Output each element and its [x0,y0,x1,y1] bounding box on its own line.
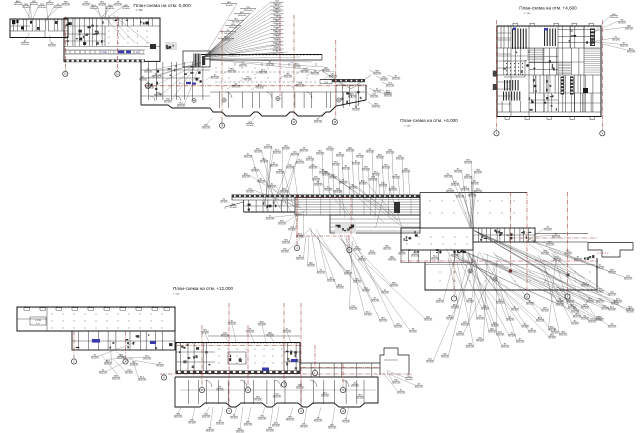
svg-text:1200 м3/ч: 1200 м3/ч [353,281,362,283]
plan D red grid x=74 [73,331,75,358]
plan D bubble (315,373) [312,370,317,375]
plan C left tip diagonal [225,202,244,207]
plan D lower band partitions [188,380,190,404]
svg-text:850 м3/ч: 850 м3/ч [581,307,589,309]
plan C lower area boundary [425,263,597,291]
plan B red grid line right [601,20,603,129]
svg-text:850 м3/ч: 850 м3/ч [258,324,266,326]
svg-text:760 м3/ч: 760 м3/ч [446,318,454,320]
svg-text:П2 В4: П2 В4 [101,52,108,54]
svg-text:1200 м3/ч: 1200 м3/ч [559,334,568,336]
svg-text:760 м3/ч: 760 м3/ч [466,301,474,303]
plan D red axis y=345 [177,345,300,347]
plan D main body mid rooms [228,352,246,364]
svg-text:1200 м3/ч: 1200 м3/ч [394,326,403,328]
svg-text:1250 м3/ч: 1250 м3/ч [246,331,255,333]
svg-text:4000 м3/ч: 4000 м3/ч [382,167,391,169]
svg-text:3200 м3/ч: 3200 м3/ч [99,372,108,374]
plan C bowtie diagonal bundle [474,231,560,283]
svg-text:4000 м3/ч: 4000 м3/ч [451,184,460,186]
svg-text:1250 м3/ч: 1250 м3/ч [349,308,358,310]
plan B grid bubble right [600,131,605,136]
svg-text:760 м3/ч: 760 м3/ч [329,177,337,179]
svg-text:760 м3/ч: 760 м3/ч [244,79,252,81]
svg-text:1200 м3/ч: 1200 м3/ч [300,150,309,152]
plan A fan left label stack [204,4,237,57]
svg-text:1250 м3/ч: 1250 м3/ч [314,184,323,186]
plan C bubble (567,296) [565,294,570,299]
svg-text:850 м3/ч: 850 м3/ч [446,191,454,193]
svg-text:1250 м3/ч: 1250 м3/ч [456,334,465,336]
svg-text:3200 м3/ч: 3200 м3/ч [259,72,268,74]
plan A labels right end [344,92,349,95]
plan B fan labels right [595,16,611,32]
svg-text:1200 м3/ч: 1200 м3/ч [546,244,555,246]
plan A right rooms [335,85,337,106]
svg-text:1250 м3/ч: 1250 м3/ч [388,259,397,261]
svg-text:3200 м3/ч: 3200 м3/ч [496,334,505,336]
plan C band extension to bracket [535,233,588,235]
svg-text:1250 м3/ч: 1250 м3/ч [144,71,153,73]
plan C lower area columns [439,271,442,274]
svg-text:2400 м3/ч: 2400 м3/ч [383,248,392,250]
svg-text:3200 м3/ч: 3200 м3/ч [296,162,305,164]
svg-text:3200 м3/ч: 3200 м3/ч [379,320,388,322]
svg-text:760 м3/ч: 760 м3/ч [326,149,334,151]
svg-text:760 м3/ч: 760 м3/ч [229,207,237,209]
plan A red grid line x=222 [221,30,223,122]
svg-text:850 м3/ч: 850 м3/ч [362,290,370,292]
svg-text:3200 м3/ч: 3200 м3/ч [501,346,510,348]
plan B mid-centre rooms [529,55,558,57]
svg-text:560 м3/ч: 560 м3/ч [352,109,360,111]
svg-text:3200 м3/ч: 3200 м3/ч [336,155,345,157]
plan C dense cell band [473,228,535,242]
svg-text:850 м3/ч: 850 м3/ч [48,45,56,47]
svg-text:2400 м3/ч: 2400 м3/ч [286,419,295,421]
svg-text:1250 м3/ч: 1250 м3/ч [316,153,325,155]
svg-text:1200 м3/ч: 1200 м3/ч [282,242,291,244]
plan C bottom-left label cloud [274,214,303,217]
svg-text:560 м3/ч: 560 м3/ч [307,265,315,267]
plan A red grid line x=335 [335,40,337,119]
plan A junction block outline [140,61,142,105]
svg-text:760 м3/ч: 760 м3/ч [384,93,392,95]
svg-text:560 м3/ч: 560 м3/ч [117,357,125,359]
svg-text:560 м3/ч: 560 м3/ч [474,172,482,174]
svg-text:1200 м3/ч: 1200 м3/ч [257,181,266,183]
svg-text:560 м3/ч: 560 м3/ч [246,191,254,193]
svg-text:850 м3/ч: 850 м3/ч [260,161,268,163]
svg-text:1250 м3/ч: 1250 м3/ч [588,321,597,323]
plan A block2 outline [64,18,160,61]
plan C central lower part [330,215,420,233]
plan B misc cells [549,60,551,62]
svg-text:850 м3/ч: 850 м3/ч [246,125,254,127]
plan A block2 equipment row [64,49,145,51]
svg-text:560 м3/ч: 560 м3/ч [251,170,259,172]
plan B comb upper-left [512,29,513,50]
svg-text:3200 м3/ч: 3200 м3/ч [411,255,420,257]
svg-text:1200 м3/ч: 1200 м3/ч [238,15,247,17]
svg-text:850 м3/ч: 850 м3/ч [164,101,172,103]
plan A junction cells [151,84,153,87]
svg-text:3200 м3/ч: 3200 м3/ч [384,95,393,97]
plan C red drop to bubble (297,248) [296,194,298,245]
svg-text:1250 м3/ч: 1250 м3/ч [392,78,401,80]
plan C extra upper labels [317,166,391,214]
plan B upper partitions [562,26,564,48]
plan C central duct band [295,198,420,216]
svg-text:760 м3/ч: 760 м3/ч [46,4,54,6]
svg-text:4000 м3/ч: 4000 м3/ч [309,167,318,169]
svg-text:4000 м3/ч: 4000 м3/ч [242,176,251,178]
plan A block3 bottom wall with bays [210,108,222,112]
plan B extra partitions [503,48,505,75]
plan C upper-left label cloud [252,155,267,210]
plan A labels below bays [206,118,212,125]
svg-text:1200 м3/ч: 1200 м3/ч [21,44,30,46]
plan D red grid x=284 [283,303,285,381]
svg-text:3200 м3/ч: 3200 м3/ч [244,10,253,12]
plan A grid bubble (294,122) [291,119,296,124]
svg-text:1200 м3/ч: 1200 м3/ч [258,418,267,420]
svg-text:1 : 500: 1 : 500 [135,10,143,12]
plan D bubble (164,377) [161,375,166,380]
plan C right columns grid [429,200,432,203]
svg-text:3200 м3/ч: 3200 м3/ч [273,396,282,398]
plan A block3 column dots [215,67,218,70]
svg-text:760 м3/ч: 760 м3/ч [230,417,238,419]
svg-text:850 м3/ч: 850 м3/ч [454,171,462,173]
plan C band below hall [401,250,473,263]
plan B blue tags [513,28,516,30]
plan C big hall [401,228,473,250]
plan A block2 partitions left part [67,18,69,46]
svg-text:1250 м3/ч: 1250 м3/ч [319,172,328,174]
svg-text:4000 м3/ч: 4000 м3/ч [211,77,220,79]
plan A right label cluster [369,70,374,72]
plan D main body roof line [208,335,300,337]
svg-text:1200 м3/ч: 1200 м3/ч [62,4,71,6]
svg-text:2400 м3/ч: 2400 м3/ч [229,27,238,29]
plan C left block partitions [248,200,250,212]
svg-text:4000 м3/ч: 4000 м3/ч [306,159,315,161]
svg-text:2400 м3/ч: 2400 м3/ч [586,301,595,303]
svg-text:2400 м3/ч: 2400 м3/ч [280,191,289,193]
plan A right dark band [320,79,365,82]
svg-text:4000 м3/ч: 4000 м3/ч [130,364,139,366]
plan A left wing outline [10,19,68,38]
svg-text:560 м3/ч: 560 м3/ч [380,79,388,81]
plan C bubble (527,296) [524,294,529,299]
plan A scattered labels mid [206,76,212,80]
svg-text:План-схема на отм. +4,600: План-схема на отм. +4,600 [519,6,577,11]
svg-text:2400 м3/ч: 2400 м3/ч [177,105,186,107]
plan C strip dark top band [232,195,420,198]
plan D red axis y=367 [302,367,380,369]
svg-text:1200 м3/ч: 1200 м3/ч [202,127,211,129]
svg-text:4000 м3/ч: 4000 м3/ч [222,39,231,41]
plan A block3 equipment circles [222,98,226,102]
plan C bubble (297,248) [294,245,299,250]
svg-text:850 м3/ч: 850 м3/ч [508,335,516,337]
plan D under-hall label cloud [99,342,137,356]
svg-text:560 м3/ч: 560 м3/ч [188,422,196,424]
svg-text:1200 м3/ч: 1200 м3/ч [581,285,590,287]
svg-text:4000 м3/ч: 4000 м3/ч [614,301,623,303]
svg-text:3200 м3/ч: 3200 м3/ч [339,182,348,184]
svg-text:1200 м3/ч: 1200 м3/ч [496,302,505,304]
svg-text:850 м3/ч: 850 м3/ч [596,291,604,293]
svg-text:560 м3/ч: 560 м3/ч [379,185,387,187]
svg-text:1250 м3/ч: 1250 м3/ч [397,392,406,394]
svg-text:1250 м3/ч: 1250 м3/ч [273,152,282,154]
svg-text:4000 м3/ч: 4000 м3/ч [30,4,39,6]
svg-text:План-схема на отм. +6,000: План-схема на отм. +6,000 [400,118,458,123]
svg-text:1200 м3/ч: 1200 м3/ч [352,163,361,165]
svg-text:850 м3/ч: 850 м3/ч [91,357,99,359]
plan B ramp ribs right [584,48,600,50]
svg-text:850 м3/ч: 850 м3/ч [281,251,289,253]
svg-text:1250 м3/ч: 1250 м3/ч [370,96,379,98]
svg-text:1250 м3/ч: 1250 м3/ч [396,158,405,160]
svg-text:560 м3/ч: 560 м3/ч [254,151,262,153]
svg-text:560 м3/ч: 560 м3/ч [405,379,413,381]
plan D main body outline [176,343,300,374]
svg-text:850 м3/ч: 850 м3/ч [268,186,276,188]
svg-text:850 м3/ч: 850 м3/ч [266,430,274,432]
svg-text:2400 м3/ч: 2400 м3/ч [611,303,620,305]
plan D hall left partitions [46,307,48,331]
svg-text:1250 м3/ч: 1250 м3/ч [114,4,123,6]
svg-text:1250 м3/ч: 1250 м3/ч [626,309,635,311]
svg-text:2400 м3/ч: 2400 м3/ч [392,382,401,384]
svg-text:1200 м3/ч: 1200 м3/ч [351,385,360,387]
svg-text:560 м3/ч: 560 м3/ч [152,76,160,78]
plan C red axis y=261 [400,260,598,262]
svg-text:850 м3/ч: 850 м3/ч [511,309,519,311]
plan D red grid x=315 [314,345,316,370]
plan A block2 top label cloud [90,3,105,19]
plan A block3 interior marks [234,63,236,66]
svg-text:4000 м3/ч: 4000 м3/ч [466,346,475,348]
plan C bubble (349,250) [347,247,352,252]
svg-text:1250 м3/ч: 1250 м3/ч [228,71,237,73]
svg-text:850 м3/ч: 850 м3/ч [362,169,370,171]
plan D red grid x=125 [125,331,127,358]
svg-text:1200 м3/ч: 1200 м3/ч [488,331,497,333]
svg-text:1250 м3/ч: 1250 м3/ч [596,267,605,269]
plan C lower crosshairs [468,269,472,273]
svg-text:3200 м3/ч: 3200 м3/ч [481,308,490,310]
svg-text:1200 м3/ч: 1200 м3/ч [321,395,330,397]
plan B mid band extra verticals [535,75,537,93]
svg-text:3200 м3/ч: 3200 м3/ч [372,106,381,108]
svg-text:760 м3/ч: 760 м3/ч [256,87,264,89]
svg-text:4000 м3/ч: 4000 м3/ч [536,320,545,322]
svg-text:760 м3/ч: 760 м3/ч [216,389,224,391]
svg-text:4000 м3/ч: 4000 м3/ч [386,85,395,87]
svg-text:2400 м3/ч: 2400 м3/ч [366,151,375,153]
plan B dark bar upper-right [590,29,595,47]
plan C bottom extra labels [474,254,489,330]
svg-text:3200 м3/ч: 3200 м3/ч [624,278,633,280]
svg-text:560 м3/ч: 560 м3/ч [548,337,556,339]
svg-text:2400 м3/ч: 2400 м3/ч [244,156,253,158]
svg-text:760 м3/ч: 760 м3/ч [225,5,233,7]
plan C left block outline [231,195,233,201]
svg-text:4000 м3/ч: 4000 м3/ч [386,152,395,154]
plan D red grid x=301 [300,303,302,407]
svg-text:4000 м3/ч: 4000 м3/ч [314,420,323,422]
plan C lower walkway line [425,264,595,266]
svg-text:3200 м3/ч: 3200 м3/ч [291,154,300,156]
svg-text:850 м3/ч: 850 м3/ч [409,331,417,333]
plan D red grid x=229 [228,303,230,407]
svg-text:850 м3/ч: 850 м3/ч [272,425,280,427]
plan D main body right rooms [283,343,285,374]
plan C right label cloud lower [525,228,544,242]
svg-text:План-схема на отм. +12,000: План-схема на отм. +12,000 [173,286,234,291]
svg-text:1200 м3/ч: 1200 м3/ч [444,176,453,178]
plan A red grid line x=117 [116,17,118,71]
plan D bubble (343,390) [340,387,345,392]
plan A block3 room row [210,91,365,93]
svg-text:1200 м3/ч: 1200 м3/ч [228,323,237,325]
svg-text:560 м3/ч: 560 м3/ч [98,4,106,6]
svg-text:4000 м3/ч: 4000 м3/ч [221,335,230,337]
svg-text:1250 м3/ч: 1250 м3/ч [38,7,47,9]
svg-text:2400 м3/ч: 2400 м3/ч [90,8,99,10]
svg-text:1200 м3/ч: 1200 м3/ч [476,318,485,320]
svg-text:760 м3/ч: 760 м3/ч [288,229,296,231]
plan A red grid line x=294 [293,15,295,119]
svg-text:760 м3/ч: 760 м3/ч [364,314,372,316]
svg-text:2400 м3/ч: 2400 м3/ч [474,191,483,193]
plan B comb upper-mid [544,29,545,47]
svg-text:1200 м3/ч: 1200 м3/ч [266,64,275,66]
plan D bubble (248,390) [245,387,250,392]
plan D bubble (74,361) [71,359,76,364]
svg-text:3200 м3/ч: 3200 м3/ч [344,273,353,275]
svg-text:4000 м3/ч: 4000 м3/ч [390,285,399,287]
svg-text:1200 м3/ч: 1200 м3/ч [468,195,477,197]
svg-text:1250 м3/ч: 1250 м3/ч [441,356,450,358]
svg-text:760 м3/ч: 760 м3/ч [544,229,552,231]
plan C red grid x=567 [567,192,569,293]
svg-text:560 м3/ч: 560 м3/ч [608,309,616,311]
svg-text:2400 м3/ч: 2400 м3/ч [596,301,605,303]
plan B left attachments [493,71,497,77]
svg-text:4000 м3/ч: 4000 м3/ч [389,189,398,191]
plan C bottom label cloud [444,256,456,300]
plan B mid partitions [534,48,536,75]
svg-text:3200 м3/ч: 3200 м3/ч [334,191,343,193]
svg-text:760 м3/ч: 760 м3/ч [156,365,164,367]
svg-text:760 м3/ч: 760 м3/ч [392,177,400,179]
svg-text:2400 м3/ч: 2400 м3/ч [373,73,382,75]
svg-text:1250 м3/ч: 1250 м3/ч [143,358,152,360]
plan C bubble (454,298) [451,296,456,301]
plan C upper-right label cloud bowtie [452,175,471,227]
svg-text:760 м3/ч: 760 м3/ч [122,8,130,10]
svg-text:1200 м3/ч: 1200 м3/ч [349,187,358,189]
plan A grid bubble (335,122) [332,119,337,124]
svg-text:2400 м3/ч: 2400 м3/ч [296,258,305,260]
svg-text:1250 м3/ч: 1250 м3/ч [216,423,225,425]
svg-text:560 м3/ч: 560 м3/ч [398,253,406,255]
svg-text:4000 м3/ч: 4000 м3/ч [436,301,445,303]
svg-text:1250 м3/ч: 1250 м3/ч [278,223,287,225]
plan A block2 open hall [104,26,106,46]
svg-text:760 м3/ч: 760 м3/ч [608,272,616,274]
plan A red grid line x=65 [64,17,66,71]
plan C red dashed rectangle [297,198,351,237]
svg-text:850 м3/ч: 850 м3/ч [359,183,367,185]
svg-text:760 м3/ч: 760 м3/ч [332,164,340,166]
svg-text:1 : 500: 1 : 500 [173,293,180,295]
svg-text:1250 м3/ч: 1250 м3/ч [276,172,285,174]
svg-text:850 м3/ч: 850 м3/ч [82,4,90,6]
svg-text:3200 м3/ч: 3200 м3/ч [552,236,561,238]
plan A AHU dark comb [193,54,196,67]
svg-text:760 м3/ч: 760 м3/ч [426,361,434,363]
svg-text:3200 м3/ч: 3200 м3/ч [206,430,215,432]
svg-text:ОТ-ПВ: ОТ-ПВ [35,320,42,322]
svg-text:2400 м3/ч: 2400 м3/ч [14,4,23,6]
svg-text:2400 м3/ч: 2400 м3/ч [464,177,473,179]
plan B stairs ribs mid [558,62,571,64]
svg-text:2400 м3/ч: 2400 м3/ч [526,303,535,305]
svg-text:1250 м3/ч: 1250 м3/ч [328,427,337,429]
svg-text:1200 м3/ч: 1200 м3/ч [610,17,619,19]
plan A fan down-left labels [152,61,198,70]
svg-text:1250 м3/ч: 1250 м3/ч [461,189,470,191]
plan A grid bubble (222,126) [219,123,224,128]
svg-text:4000 м3/ч: 4000 м3/ч [573,316,582,318]
svg-text:560 м3/ч: 560 м3/ч [381,292,389,294]
plan D right hook [380,348,409,375]
plan D right tail labels [387,371,393,381]
svg-text:560 м3/ч: 560 м3/ч [564,253,572,255]
svg-text:3200 м3/ч: 3200 м3/ч [54,7,63,9]
plan D main body blue tags [262,368,269,371]
svg-text:560 м3/ч: 560 м3/ч [22,7,30,9]
plan D above-body labels [205,333,209,342]
plan C left block dark cells [275,205,277,207]
svg-text:4000 м3/ч: 4000 м3/ч [358,259,367,261]
plan B black cell [583,88,588,93]
plan B rooftop tabs [513,23,518,26]
plan A block2 hall diagonal leaders [103,15,125,40]
plan D bubble (229,411) [226,408,231,413]
plan B mid-left pillar hall [504,61,525,77]
plan D hall inner room [30,317,46,325]
svg-text:4000 м3/ч: 4000 м3/ч [574,259,583,261]
svg-text:760 м3/ч: 760 м3/ч [286,167,294,169]
plan D lower band bottom wall with bays [175,377,200,407]
svg-text:2400 м3/ч: 2400 м3/ч [625,28,634,30]
svg-text:850 м3/ч: 850 м3/ч [368,253,376,255]
svg-text:560 м3/ч: 560 м3/ч [541,310,549,312]
plan C red drop to bubble (349,250) [348,236,350,247]
svg-text:1250 м3/ч: 1250 м3/ч [327,280,336,282]
plan A block2 dark bottom band [64,59,145,62]
plan D main body left rooms [179,343,181,374]
svg-text:1 : 500: 1 : 500 [524,13,531,15]
svg-text:2400 м3/ч: 2400 м3/ч [270,165,279,167]
